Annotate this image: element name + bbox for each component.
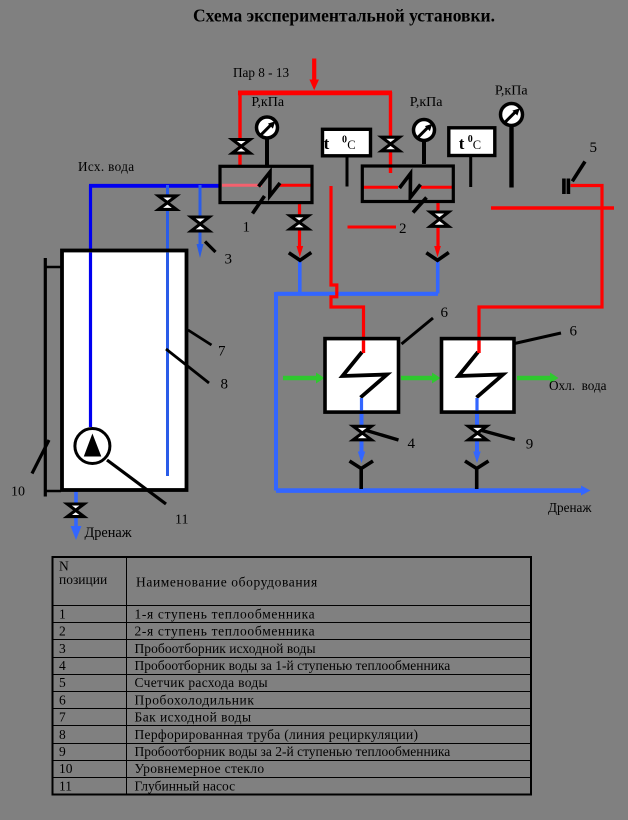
svg-text:позиции: позиции [59,572,107,587]
svg-text:Уровнемерное стекло: Уровнемерное стекло [135,761,265,776]
svg-text:t: t [459,134,465,153]
svg-text:t: t [324,134,330,153]
svg-text:6: 6 [570,324,578,340]
svg-text:Бак исходной воды: Бак исходной воды [135,710,252,725]
svg-text:4: 4 [59,658,66,673]
svg-text:Р,кПа: Р,кПа [251,95,284,110]
svg-text:11: 11 [175,513,188,528]
svg-text:9: 9 [59,744,66,759]
svg-text:Наименование оборудования: Наименование оборудования [136,575,318,590]
svg-text:8: 8 [59,727,66,742]
svg-text:3: 3 [225,252,233,268]
svg-text:10: 10 [11,485,25,500]
svg-text:Пар 8 - 13: Пар 8 - 13 [233,65,289,80]
svg-text:Р,кПа: Р,кПа [495,84,528,99]
svg-text:6: 6 [59,692,66,707]
svg-text:Пробоотборник воды за 1-й ступ: Пробоотборник воды за 1-й ступенью тепло… [135,658,451,673]
svg-text:6: 6 [441,305,449,321]
svg-text:5: 5 [59,675,66,690]
svg-text:Р,кПа: Р,кПа [410,95,443,110]
svg-text:4: 4 [408,436,416,452]
svg-text:2: 2 [399,221,407,237]
svg-text:Пробоотборник исходной воды: Пробоотборник исходной воды [135,641,316,656]
svg-text:1: 1 [59,607,66,622]
svg-text:2-я ступень теплообменника: 2-я ступень теплообменника [135,624,316,639]
svg-text:Пробохолодильник: Пробохолодильник [135,692,255,707]
svg-text:Перфорированная труба (линия р: Перфорированная труба (линия рециркуляци… [135,727,419,742]
svg-text:8: 8 [221,377,229,393]
svg-text:1-я ступень теплообменника: 1-я ступень теплообменника [135,607,316,622]
svg-text:Охл. вода: Охл. вода [549,378,607,393]
svg-text:Глубинный насос: Глубинный насос [135,778,236,793]
svg-text:5: 5 [590,140,598,156]
svg-text:Схема экспериментальной устано: Схема экспериментальной установки. [193,6,495,26]
svg-text:Дренаж: Дренаж [548,500,592,515]
svg-text:Дренаж: Дренаж [85,525,132,541]
svg-text:Исх. вода: Исх. вода [78,159,134,174]
svg-text:11: 11 [59,778,72,793]
svg-text:3: 3 [59,641,66,656]
svg-text:С: С [347,138,355,152]
svg-text:0: 0 [342,134,347,145]
svg-text:1: 1 [243,220,251,236]
svg-text:Пробоотборник воды за 2-й ступ: Пробоотборник воды за 2-й ступенью тепло… [135,744,451,759]
svg-text:С: С [473,138,481,152]
svg-text:7: 7 [59,710,66,725]
svg-text:7: 7 [218,344,226,360]
svg-text:Счетчик расхода воды: Счетчик расхода воды [135,675,268,690]
svg-text:9: 9 [526,437,534,453]
svg-text:10: 10 [59,761,73,776]
svg-text:2: 2 [59,624,66,639]
